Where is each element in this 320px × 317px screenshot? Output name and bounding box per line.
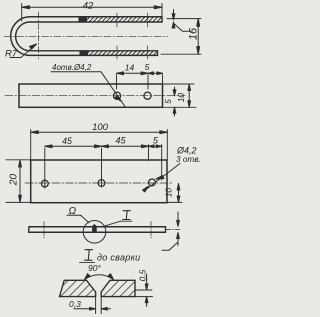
horizontal centerline	[4, 35, 168, 37]
hole centerline tick upper-right	[147, 13, 149, 27]
svg-text:10: 10	[164, 188, 174, 198]
svg-text:20: 20	[9, 174, 20, 187]
bottom strap end cap	[157, 51, 159, 56]
hole left	[113, 92, 120, 99]
loop inner contour	[16, 22, 162, 51]
centerline extension right	[166, 228, 180, 230]
detail label I	[104, 211, 133, 227]
right extension lines	[163, 83, 195, 85]
hole middle	[98, 180, 105, 187]
hole right	[144, 92, 151, 99]
plate outline	[31, 160, 167, 203]
dimension 100	[31, 122, 168, 160]
dimension 10 (strap width)	[176, 84, 191, 107]
strap outline	[19, 84, 163, 107]
svg-text:14: 14	[125, 63, 135, 73]
strip top edge	[29, 226, 166, 228]
thickness dimension at strip end	[162, 212, 179, 250]
gap dimension 0,3	[69, 297, 111, 314]
weld bead bottom	[80, 51, 88, 55]
svg-text:до сварки: до сварки	[97, 253, 140, 263]
dimension 16	[161, 19, 201, 55]
left plate section	[60, 280, 96, 296]
weld bead top	[79, 17, 87, 22]
svg-text:45: 45	[115, 136, 126, 146]
weld symbol omega label	[67, 206, 89, 223]
loop outer contour	[11, 17, 162, 56]
strip left end	[28, 227, 30, 233]
root face dimension 0,5	[135, 269, 153, 306]
svg-text:5: 5	[153, 136, 158, 146]
hole right	[149, 179, 156, 186]
svg-text:10: 10	[176, 93, 186, 103]
dimension 45 45 5	[45, 136, 162, 189]
svg-text:90°: 90°	[88, 263, 101, 273]
svg-text:3 отв.: 3 отв.	[176, 155, 201, 164]
dimension 10 (hole to edge)	[164, 184, 183, 203]
dimension 5 (half width)	[164, 87, 176, 116]
svg-text:42: 42	[83, 1, 94, 12]
strap centerline	[5, 95, 185, 97]
svg-text:100: 100	[92, 122, 109, 133]
svg-text:5: 5	[145, 62, 150, 72]
weld joint mark	[92, 225, 96, 227]
strip right end	[165, 227, 167, 233]
svg-text:Ø4,2: Ø4,2	[176, 146, 197, 156]
right plate section	[101, 280, 135, 296]
angle arc	[85, 275, 114, 280]
label 4 holes dia 4,2 with leader	[51, 63, 125, 107]
title I underline	[80, 250, 95, 263]
hole tick right	[150, 222, 152, 239]
hole centerline tick upper-left	[116, 13, 118, 27]
svg-text:0,3: 0,3	[69, 299, 81, 309]
top strap end cap	[161, 17, 163, 22]
label dia 4,2 3 holes with leader	[143, 146, 201, 193]
svg-text:4отв.Ø4,2: 4отв.Ø4,2	[52, 63, 92, 72]
hole tick left	[43, 222, 45, 239]
bottom strap hatch	[88, 51, 158, 55]
detail circle I	[83, 221, 106, 244]
hole left	[41, 180, 48, 187]
svg-text:5: 5	[164, 99, 173, 104]
hole centerline tick lower-left	[116, 46, 118, 59]
radius label R7	[5, 44, 37, 60]
dimension 20	[6, 160, 30, 203]
weld leader symbol at strap end	[172, 10, 191, 32]
svg-text:0,5: 0,5	[138, 269, 148, 281]
svg-text:16: 16	[188, 27, 200, 40]
strip bottom edge	[29, 231, 166, 233]
plate centerline	[25, 182, 172, 184]
dimension 42	[22, 1, 162, 21]
svg-text:45: 45	[62, 136, 72, 146]
vertical centerline of loop radius	[38, 12, 40, 59]
top strap hatch	[86, 17, 162, 21]
dimension 14 and 5	[117, 62, 163, 89]
hole centerline tick lower-right	[147, 46, 149, 59]
